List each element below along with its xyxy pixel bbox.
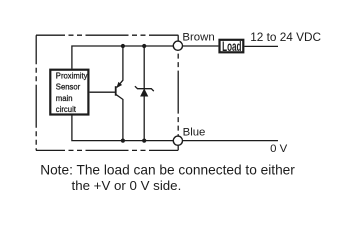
svg-text:Note: The load can be connecte: Note: The load can be connected to eithe… [40,162,295,177]
svg-text:circuit: circuit [56,105,77,114]
svg-text:Brown: Brown [182,32,214,44]
svg-text:Load: Load [222,40,241,55]
svg-text:Blue: Blue [183,126,206,138]
svg-text:the +V or 0 V side.: the +V or 0 V side. [72,178,182,193]
svg-text:Proximity: Proximity [56,71,88,80]
svg-text:12 to 24 VDC: 12 to 24 VDC [250,30,321,44]
svg-text:main: main [56,94,73,103]
svg-text:Sensor: Sensor [56,82,81,91]
svg-text:0 V: 0 V [270,143,287,155]
